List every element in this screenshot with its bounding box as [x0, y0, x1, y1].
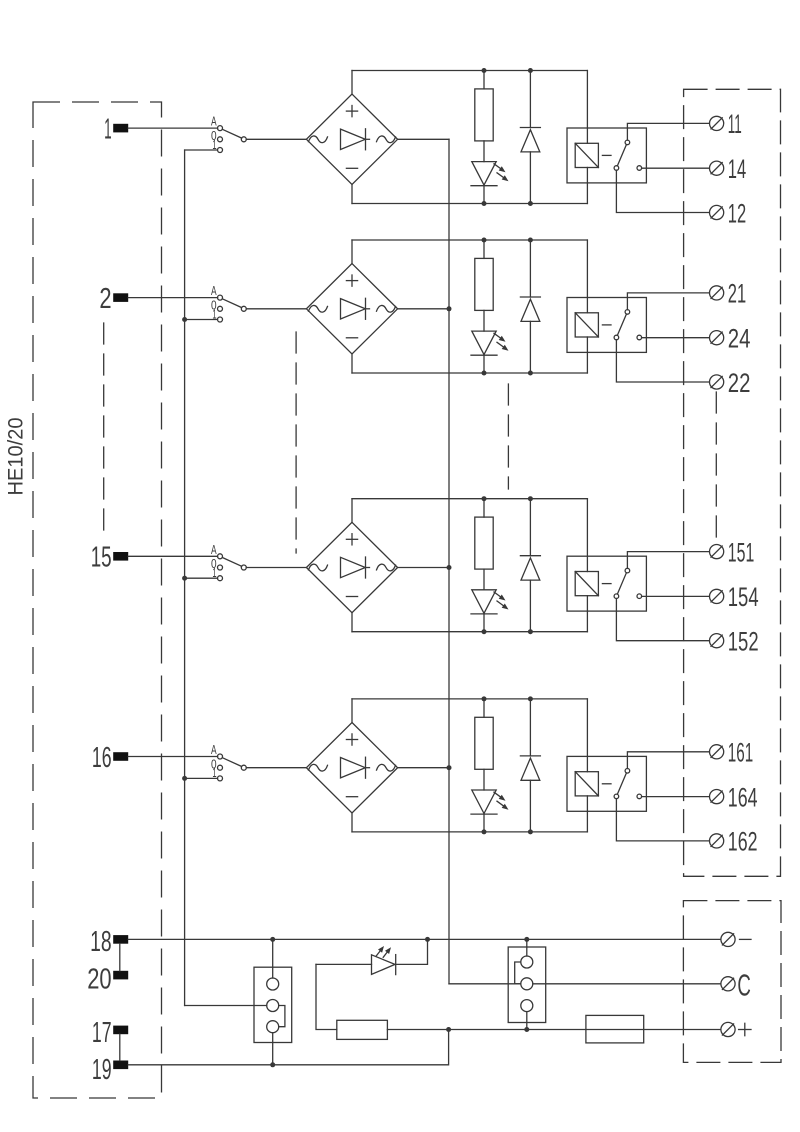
wire bridge top to rail ch4 [351, 699, 353, 723]
junction bottom rail / LED ch3 [482, 629, 487, 634]
wire bridge bottom to rail ch3 [351, 613, 353, 632]
junction bottom rail / LED ch1 [482, 201, 487, 206]
terminal 164 [710, 782, 758, 812]
middle bus vertical wire (bridge commons to C) [448, 139, 450, 984]
wire contact common to terminal 21 [627, 293, 709, 310]
junction left bus ch2 [182, 317, 187, 322]
junction rail19 / power block A bottom contact [270, 1062, 275, 1067]
wire selector position 1 to left bus ch4 [185, 777, 218, 779]
fuse F1 [586, 1015, 644, 1043]
terminal C [721, 967, 751, 1002]
junction bottom rail / diode ch3 [528, 629, 533, 634]
bottom rail ch1 [352, 203, 587, 205]
junction middle bus ch2 [447, 306, 452, 311]
junction top rail / resistor ch1 [482, 68, 487, 73]
wire selector position 1 to left bus ch3 [185, 577, 218, 579]
connector HE10/20 dashed outline [33, 102, 162, 1098]
wire contact NC to terminal 162 [616, 799, 709, 841]
svg-text:1: 1 [104, 114, 112, 146]
wire bridge top to rail ch3 [351, 499, 353, 523]
pin 18 of connector [90, 926, 128, 958]
relay K1 coil [575, 71, 611, 204]
wire bridge bottom to rail ch1 [351, 185, 353, 204]
selector switch S1 positions A/0/1 [211, 114, 246, 153]
wire bridge output to middle bus ch4 [398, 767, 449, 769]
junction middle bus ch4 [447, 765, 452, 770]
top rail ch2 [352, 239, 587, 241]
svg-text:162: 162 [728, 827, 758, 857]
wire contact NO to terminal 24 [642, 337, 710, 339]
bridge rectifier G2 [306, 264, 397, 354]
pin 17 of connector [92, 1017, 128, 1049]
relay K2 coil [575, 240, 611, 373]
relay K4 contact [614, 769, 641, 799]
svg-text:19: 19 [92, 1054, 112, 1086]
svg-text:2: 2 [99, 283, 111, 315]
svg-text:15: 15 [91, 542, 112, 574]
svg-text:152: 152 [728, 627, 759, 657]
wire power block B bottom contact to plus rail [526, 1012, 528, 1030]
svg-text:24: 24 [728, 324, 751, 354]
wire bridge bottom to rail ch4 [351, 813, 353, 832]
LED V2 [471, 331, 509, 373]
svg-text:16: 16 [92, 742, 112, 774]
wire pin 1 to selector ch1 [128, 127, 217, 129]
junction bottom rail / diode ch1 [528, 201, 533, 206]
junction rail18 / status LED branch [425, 937, 430, 942]
junction bottom rail / diode ch2 [528, 371, 533, 376]
top rail ch1 [352, 70, 587, 72]
junction plus rail / power block B bottom contact [524, 1027, 529, 1032]
wire bridge output to middle bus ch3 [398, 567, 449, 569]
selector switch S4 positions A/0/1 [211, 742, 246, 781]
wire bridge output to middle bus ch1 [398, 138, 449, 140]
LED V1 [471, 162, 509, 204]
wire selector position 1 to left bus ch2 [185, 319, 218, 321]
wire bridge bottom to rail ch2 [351, 354, 353, 373]
junction left bus ch3 [182, 576, 187, 581]
rail 18 to terminal minus [128, 938, 721, 940]
pin 20 of connector [87, 964, 128, 996]
svg-text:C: C [737, 967, 751, 1002]
wire power block B middle contact to terminal C [533, 983, 721, 985]
terminal 162 [710, 827, 758, 857]
terminal plus [721, 1022, 751, 1036]
junction rail18 / power block A top contact [270, 937, 275, 942]
wire selector pivot to bridge ch3 [246, 567, 306, 569]
wire contact NO to terminal 14 [642, 167, 710, 169]
top rail ch3 [352, 498, 587, 500]
svg-text:154: 154 [728, 582, 759, 612]
terminal 14 [710, 154, 747, 184]
power block A (3-pole) [254, 967, 292, 1042]
wire selector position 1 to left bus ch1 [185, 149, 218, 151]
continuation dashed line below diode column [507, 384, 509, 489]
wire bridge top to rail ch2 [351, 240, 353, 264]
terminal 12 [710, 198, 747, 228]
junction rail18 / power block B top contact [524, 937, 529, 942]
junction rail19 riser / plus rail [446, 1027, 451, 1032]
selector switch S2 positions A/0/1 [211, 283, 246, 322]
resistor R3 [475, 499, 493, 590]
svg-text:A: A [211, 542, 217, 557]
bridge rectifier G3 [306, 522, 397, 612]
junction top rail / resistor ch2 [482, 238, 487, 243]
strap pin 18 to pin 20 [119, 944, 121, 971]
svg-text:HE10/20: HE10/20 [5, 418, 28, 496]
svg-text:164: 164 [728, 782, 758, 812]
wire selector pivot to bridge ch1 [246, 138, 306, 140]
wire contact NO to terminal 154 [642, 595, 710, 597]
junction top rail / resistor ch4 [482, 696, 487, 701]
wire bridge output to middle bus ch2 [398, 308, 449, 310]
top rail ch4 [352, 698, 587, 700]
LED V4 [471, 790, 509, 832]
terminal 161 [710, 738, 754, 768]
terminal 22 [710, 368, 751, 398]
svg-text:A: A [211, 283, 217, 298]
svg-text:11: 11 [728, 109, 742, 139]
wire pin 2 to selector ch2 [128, 297, 217, 299]
terminal 151 [710, 537, 755, 567]
wire power block B top contact to rail18 [526, 939, 528, 956]
svg-text:21: 21 [728, 279, 746, 309]
terminal 24 [710, 324, 751, 354]
terminal 11 [710, 109, 742, 139]
junction top rail / resistor ch3 [482, 496, 487, 501]
wire power block A top contact to rail18 [272, 939, 274, 978]
wire LED anode to resistor R5 [316, 964, 337, 1029]
junction top rail / diode ch4 [528, 696, 533, 701]
junction bottom rail / LED ch4 [482, 829, 487, 834]
rail 19 wire [128, 1030, 448, 1065]
relay K1 contact [614, 140, 641, 170]
svg-text:12: 12 [728, 198, 746, 228]
wire pin 15 to selector ch3 [128, 555, 217, 557]
junction bottom rail / diode ch4 [528, 829, 533, 834]
bottom rail ch4 [352, 831, 587, 833]
pin 2 of connector [99, 283, 128, 315]
svg-text:18: 18 [90, 926, 112, 958]
wire contact NC to terminal 12 [616, 170, 709, 212]
bridge rectifier G4 [306, 723, 397, 813]
pin 19 of connector [92, 1054, 128, 1086]
junction top rail / diode ch1 [528, 68, 533, 73]
pin 1 of connector [104, 114, 128, 146]
terminal 21 [710, 279, 747, 309]
terminal 154 [710, 582, 759, 612]
wire selector pivot to bridge ch4 [246, 767, 306, 769]
bottom rail ch3 [352, 631, 587, 633]
junction bottom rail / LED ch2 [482, 371, 487, 376]
continuation dashed line below terminal column [715, 392, 717, 545]
svg-text:20: 20 [87, 964, 111, 996]
pin 16 of connector [92, 742, 128, 774]
relay K1 outline [567, 128, 646, 183]
svg-text:14: 14 [728, 154, 746, 184]
wire contact NC to terminal 152 [616, 599, 709, 641]
output terminals dashed outline [684, 89, 781, 876]
junction top rail / diode ch3 [528, 496, 533, 501]
bottom rail ch2 [352, 372, 587, 374]
wire power block A bottom contact to rail19 [272, 1033, 274, 1065]
svg-text:161: 161 [728, 738, 753, 768]
resistor R4 [475, 699, 493, 790]
wire pin 16 to selector ch4 [128, 756, 217, 758]
diode V4b [520, 699, 540, 832]
wire contact common to terminal 151 [627, 552, 709, 569]
relay K3 coil [575, 499, 611, 632]
wire contact common to terminal 11 [627, 123, 709, 140]
left selector bus vertical wire [184, 150, 186, 1006]
svg-text:151: 151 [728, 537, 755, 567]
relay K3 outline [567, 556, 646, 611]
bridge rectifier G1 [306, 94, 397, 184]
resistor R1 [475, 71, 493, 162]
wire contact NC to terminal 22 [616, 340, 709, 382]
diode V3b [520, 499, 540, 632]
terminal 152 [710, 627, 759, 657]
junction left bus ch4 [182, 776, 187, 781]
status LED V5 [316, 939, 428, 974]
relay K4 outline [567, 756, 646, 811]
relay K3 contact [614, 568, 641, 598]
connector continuation dashed line [103, 323, 105, 530]
relay K2 outline [567, 298, 646, 353]
diode V1b [520, 71, 540, 204]
wire contact common to terminal 161 [627, 752, 709, 769]
wire bridge top to rail ch1 [351, 71, 353, 95]
junction middle bus ch3 [447, 565, 452, 570]
resistor R2 [475, 240, 493, 331]
relay K4 coil [575, 699, 611, 832]
power block B (3-pole) [508, 947, 546, 1023]
svg-text:22: 22 [728, 368, 751, 398]
power terminals dashed outline [683, 901, 781, 1063]
continuation dashed line below bridge column [295, 332, 297, 553]
middle bus to C contact wire [449, 983, 521, 985]
strap pin 17 to pin 19 [119, 1034, 121, 1060]
svg-text:A: A [211, 114, 217, 129]
svg-text:A: A [211, 742, 217, 757]
plus rail wire [387, 1029, 720, 1031]
relay K2 contact [614, 310, 641, 340]
terminal minus [721, 932, 751, 946]
diode V2b [520, 240, 540, 373]
resistor R5 [337, 1020, 388, 1039]
pin 15 of connector [91, 542, 129, 574]
junction top rail / diode ch2 [528, 238, 533, 243]
wire contact NO to terminal 164 [642, 796, 710, 798]
svg-text:17: 17 [92, 1017, 112, 1049]
LED V3 [471, 590, 509, 632]
label HE10/20 [5, 418, 28, 496]
left bus to power block middle contact wire [185, 1005, 267, 1007]
selector switch S3 positions A/0/1 [211, 542, 246, 581]
wire selector pivot to bridge ch2 [246, 308, 306, 310]
